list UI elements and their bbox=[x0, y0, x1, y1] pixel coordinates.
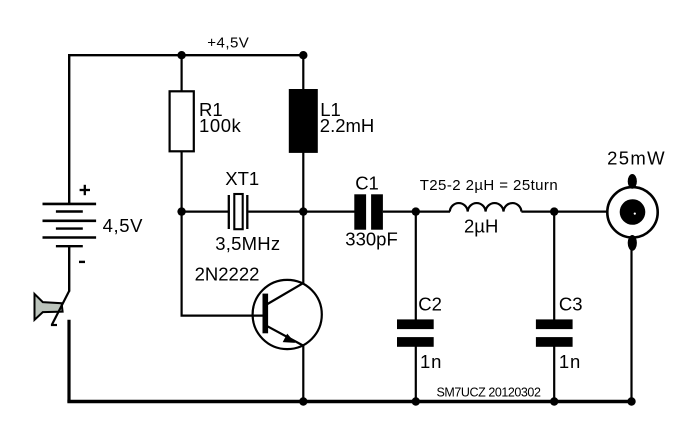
wire L1 top lead bbox=[302, 55, 304, 90]
wire battery negative lead bbox=[68, 246, 70, 291]
svg-text:2.2mH: 2.2mH bbox=[320, 115, 375, 136]
svg-text:1n: 1n bbox=[559, 351, 580, 372]
capacitor C2 bbox=[397, 319, 434, 346]
capacitor C1 bbox=[354, 194, 383, 229]
battery BT 4,5V plates bbox=[43, 204, 97, 246]
capacitor C3 bbox=[536, 319, 573, 346]
wire junction to output connector bbox=[554, 211, 607, 213]
wire top rail +4,5V bbox=[68, 54, 303, 56]
output connector J1 top lug bbox=[628, 174, 637, 189]
wire R1 bottom lead bbox=[181, 151, 183, 212]
output connector J1 outer ring bbox=[607, 187, 657, 237]
wire C3 bottom lead bbox=[553, 346, 555, 402]
battery minus sign bbox=[79, 261, 85, 263]
svg-text:SM7UCZ 20120302: SM7UCZ 20120302 bbox=[437, 385, 541, 399]
svg-text:+4,5V: +4,5V bbox=[207, 34, 249, 51]
wire C1 left lead bbox=[303, 211, 355, 213]
junction bottom rail / output connector bbox=[627, 397, 635, 405]
svg-text:4,5V: 4,5V bbox=[103, 215, 144, 236]
svg-text:3,5MHz: 3,5MHz bbox=[215, 233, 280, 254]
wire bottom rail (ground return) bbox=[67, 400, 631, 403]
key S1 knob bbox=[35, 294, 63, 320]
junction bottom rail / emitter bbox=[299, 397, 307, 405]
inductor L1 bbox=[289, 90, 317, 153]
crystal XT1 bbox=[229, 194, 248, 229]
inductor L2 toroid coil 2uH bbox=[450, 203, 522, 212]
transistor Q1 collector stroke bbox=[268, 283, 304, 304]
wire base horizontal to Q1 bbox=[181, 315, 264, 317]
svg-text:T25-2 2µH = 25turn: T25-2 2µH = 25turn bbox=[420, 177, 558, 194]
transistor Q1 2N2222 body circle bbox=[253, 280, 322, 349]
junction coil / C3 / output bbox=[550, 207, 558, 215]
wire emitter down to bottom rail bbox=[302, 346, 304, 403]
wire C1 right lead bbox=[383, 211, 416, 213]
transistor Q1 base bar bbox=[263, 294, 269, 334]
wire C3 top lead bbox=[553, 212, 555, 320]
junction C1 / L2 coil / C2 bbox=[412, 207, 420, 215]
wire L1 bottom lead bbox=[302, 151, 304, 212]
wire XT1 right lead bbox=[248, 211, 303, 213]
output connector J1 bottom lug bbox=[628, 235, 637, 251]
wire coil to C3 junction bbox=[521, 211, 554, 213]
key S1 lever bbox=[52, 291, 69, 325]
wire junction to coil bbox=[416, 211, 450, 213]
junction XT1 left / R1 / base bbox=[177, 207, 185, 215]
resistor R1 bbox=[170, 91, 194, 151]
svg-text:2µH: 2µH bbox=[464, 215, 498, 236]
svg-text:1n: 1n bbox=[420, 351, 441, 372]
junction XT1 right / L1 / collector / C1 bbox=[299, 207, 307, 215]
junction top rail / R1 bbox=[177, 51, 185, 59]
junction top rail / L1 bbox=[299, 51, 307, 59]
transistor Q1 emitter arrowhead bbox=[283, 334, 296, 343]
svg-text:C3: C3 bbox=[559, 293, 583, 314]
wire key to bottom rail bbox=[67, 320, 70, 403]
svg-text:25mW: 25mW bbox=[607, 148, 665, 169]
wire base from XT1 junction down bbox=[181, 212, 183, 316]
wire C2 top lead bbox=[415, 212, 417, 320]
svg-text:XT1: XT1 bbox=[225, 168, 259, 189]
wire battery positive lead bbox=[68, 54, 70, 205]
output connector J1 center pin highlight bbox=[634, 213, 636, 215]
battery plus sign bbox=[80, 185, 90, 195]
svg-text:330pF: 330pF bbox=[345, 229, 397, 250]
key S1 lever end tick bbox=[51, 324, 57, 326]
output connector J1 center pin bbox=[620, 199, 646, 225]
wire collector up to junction bbox=[302, 212, 304, 283]
junction bottom rail / C2 bbox=[412, 397, 420, 405]
svg-text:2N2222: 2N2222 bbox=[195, 264, 260, 285]
svg-text:C2: C2 bbox=[418, 293, 442, 314]
wire R1 top lead bbox=[181, 55, 183, 91]
svg-text:C1: C1 bbox=[355, 173, 379, 194]
wire C2 bottom lead bbox=[415, 346, 417, 402]
transistor Q1 emitter stroke bbox=[268, 326, 304, 346]
wire output connector to bottom rail bbox=[630, 250, 632, 402]
svg-text:100k: 100k bbox=[199, 115, 242, 136]
wire XT1 left lead bbox=[182, 211, 228, 213]
junction bottom rail / C3 bbox=[550, 397, 558, 405]
